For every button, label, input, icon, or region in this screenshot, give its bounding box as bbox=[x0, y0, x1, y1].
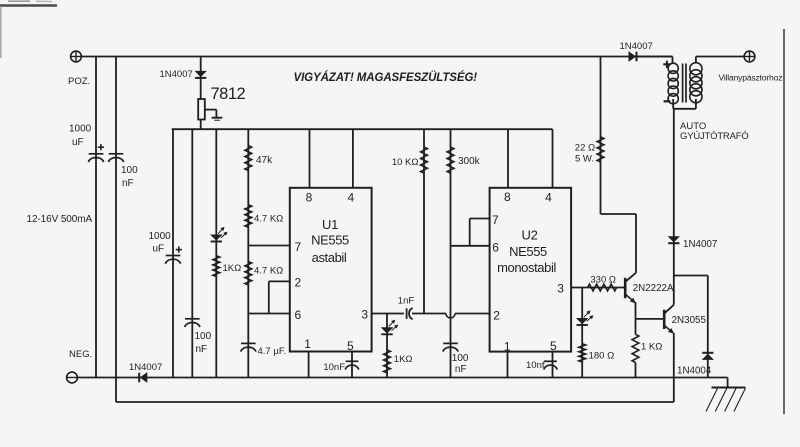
svg-text:5: 5 bbox=[347, 339, 354, 353]
svg-text:1KΩ: 1KΩ bbox=[394, 354, 413, 365]
svg-text:2N2222A: 2N2222A bbox=[633, 283, 674, 294]
svg-text:1N4004: 1N4004 bbox=[677, 366, 712, 377]
svg-text:1N4007: 1N4007 bbox=[160, 69, 193, 80]
svg-text:1N4007: 1N4007 bbox=[683, 239, 717, 250]
svg-text:U2: U2 bbox=[521, 228, 537, 243]
svg-text:1nF: 1nF bbox=[398, 296, 415, 307]
svg-text:POZ.: POZ. bbox=[68, 76, 90, 87]
svg-text:300k: 300k bbox=[458, 156, 481, 167]
svg-text:U1: U1 bbox=[322, 217, 338, 232]
svg-text:nF: nF bbox=[455, 364, 467, 375]
svg-text:2: 2 bbox=[294, 275, 301, 289]
svg-text:Villanypásztorhoz: Villanypásztorhoz bbox=[719, 73, 783, 83]
svg-text:5 W.: 5 W. bbox=[575, 154, 594, 165]
svg-text:4.7 µF.: 4.7 µF. bbox=[258, 346, 287, 357]
svg-text:NEG.: NEG. bbox=[69, 349, 92, 360]
svg-text:10 KΩ: 10 KΩ bbox=[392, 157, 419, 168]
svg-text:2: 2 bbox=[493, 309, 500, 323]
svg-text:47k: 47k bbox=[256, 155, 273, 166]
svg-text:NE555: NE555 bbox=[509, 244, 547, 259]
svg-text:3: 3 bbox=[361, 307, 368, 321]
svg-text:10nf: 10nf bbox=[526, 360, 545, 371]
svg-text:monostabil: monostabil bbox=[497, 260, 556, 275]
svg-text:nF: nF bbox=[196, 344, 208, 355]
svg-text:4: 4 bbox=[347, 191, 354, 205]
svg-text:1000: 1000 bbox=[149, 231, 172, 242]
svg-text:1N4007: 1N4007 bbox=[129, 362, 162, 373]
svg-text:1 KΩ: 1 KΩ bbox=[641, 342, 662, 353]
svg-text:330 Ω: 330 Ω bbox=[590, 275, 616, 286]
svg-text:1N4007: 1N4007 bbox=[620, 41, 653, 52]
svg-text:180 Ω: 180 Ω bbox=[589, 351, 615, 362]
svg-text:1KΩ: 1KΩ bbox=[223, 263, 242, 274]
svg-text:4: 4 bbox=[545, 191, 552, 205]
svg-text:8: 8 bbox=[504, 190, 511, 204]
svg-text:5: 5 bbox=[550, 339, 557, 353]
svg-text:astabil: astabil bbox=[312, 250, 347, 265]
svg-text:100: 100 bbox=[452, 353, 469, 364]
svg-text:4.7 KΩ: 4.7 KΩ bbox=[254, 266, 283, 277]
svg-text:1000: 1000 bbox=[69, 124, 92, 135]
svg-text:nF: nF bbox=[122, 178, 134, 189]
svg-text:uF: uF bbox=[153, 244, 165, 255]
svg-text:3: 3 bbox=[557, 282, 564, 296]
svg-text:1: 1 bbox=[304, 337, 311, 351]
svg-text:6: 6 bbox=[492, 241, 499, 255]
svg-text:12-16V 500mA: 12-16V 500mA bbox=[27, 214, 93, 225]
svg-text:22 Ω: 22 Ω bbox=[575, 143, 595, 154]
svg-text:VIGYÁZAT! MAGASFESZÜLTSÉG!: VIGYÁZAT! MAGASFESZÜLTSÉG! bbox=[294, 71, 478, 84]
svg-text:7: 7 bbox=[492, 213, 499, 227]
svg-text:100: 100 bbox=[195, 331, 212, 342]
svg-text:7: 7 bbox=[294, 240, 301, 254]
svg-text:100: 100 bbox=[121, 165, 138, 176]
svg-text:2N3055: 2N3055 bbox=[672, 315, 707, 326]
svg-text:7812: 7812 bbox=[211, 85, 246, 103]
svg-text:10nF: 10nF bbox=[323, 362, 345, 373]
svg-text:NE555: NE555 bbox=[311, 233, 349, 248]
svg-text:6: 6 bbox=[294, 308, 301, 322]
svg-text:GYÚJTÓTRAFÓ: GYÚJTÓTRAFÓ bbox=[680, 131, 749, 142]
svg-text:uF: uF bbox=[72, 137, 84, 148]
svg-text:1: 1 bbox=[504, 339, 511, 353]
svg-text:8: 8 bbox=[306, 191, 313, 205]
svg-text:4.7 KΩ: 4.7 KΩ bbox=[254, 214, 283, 225]
